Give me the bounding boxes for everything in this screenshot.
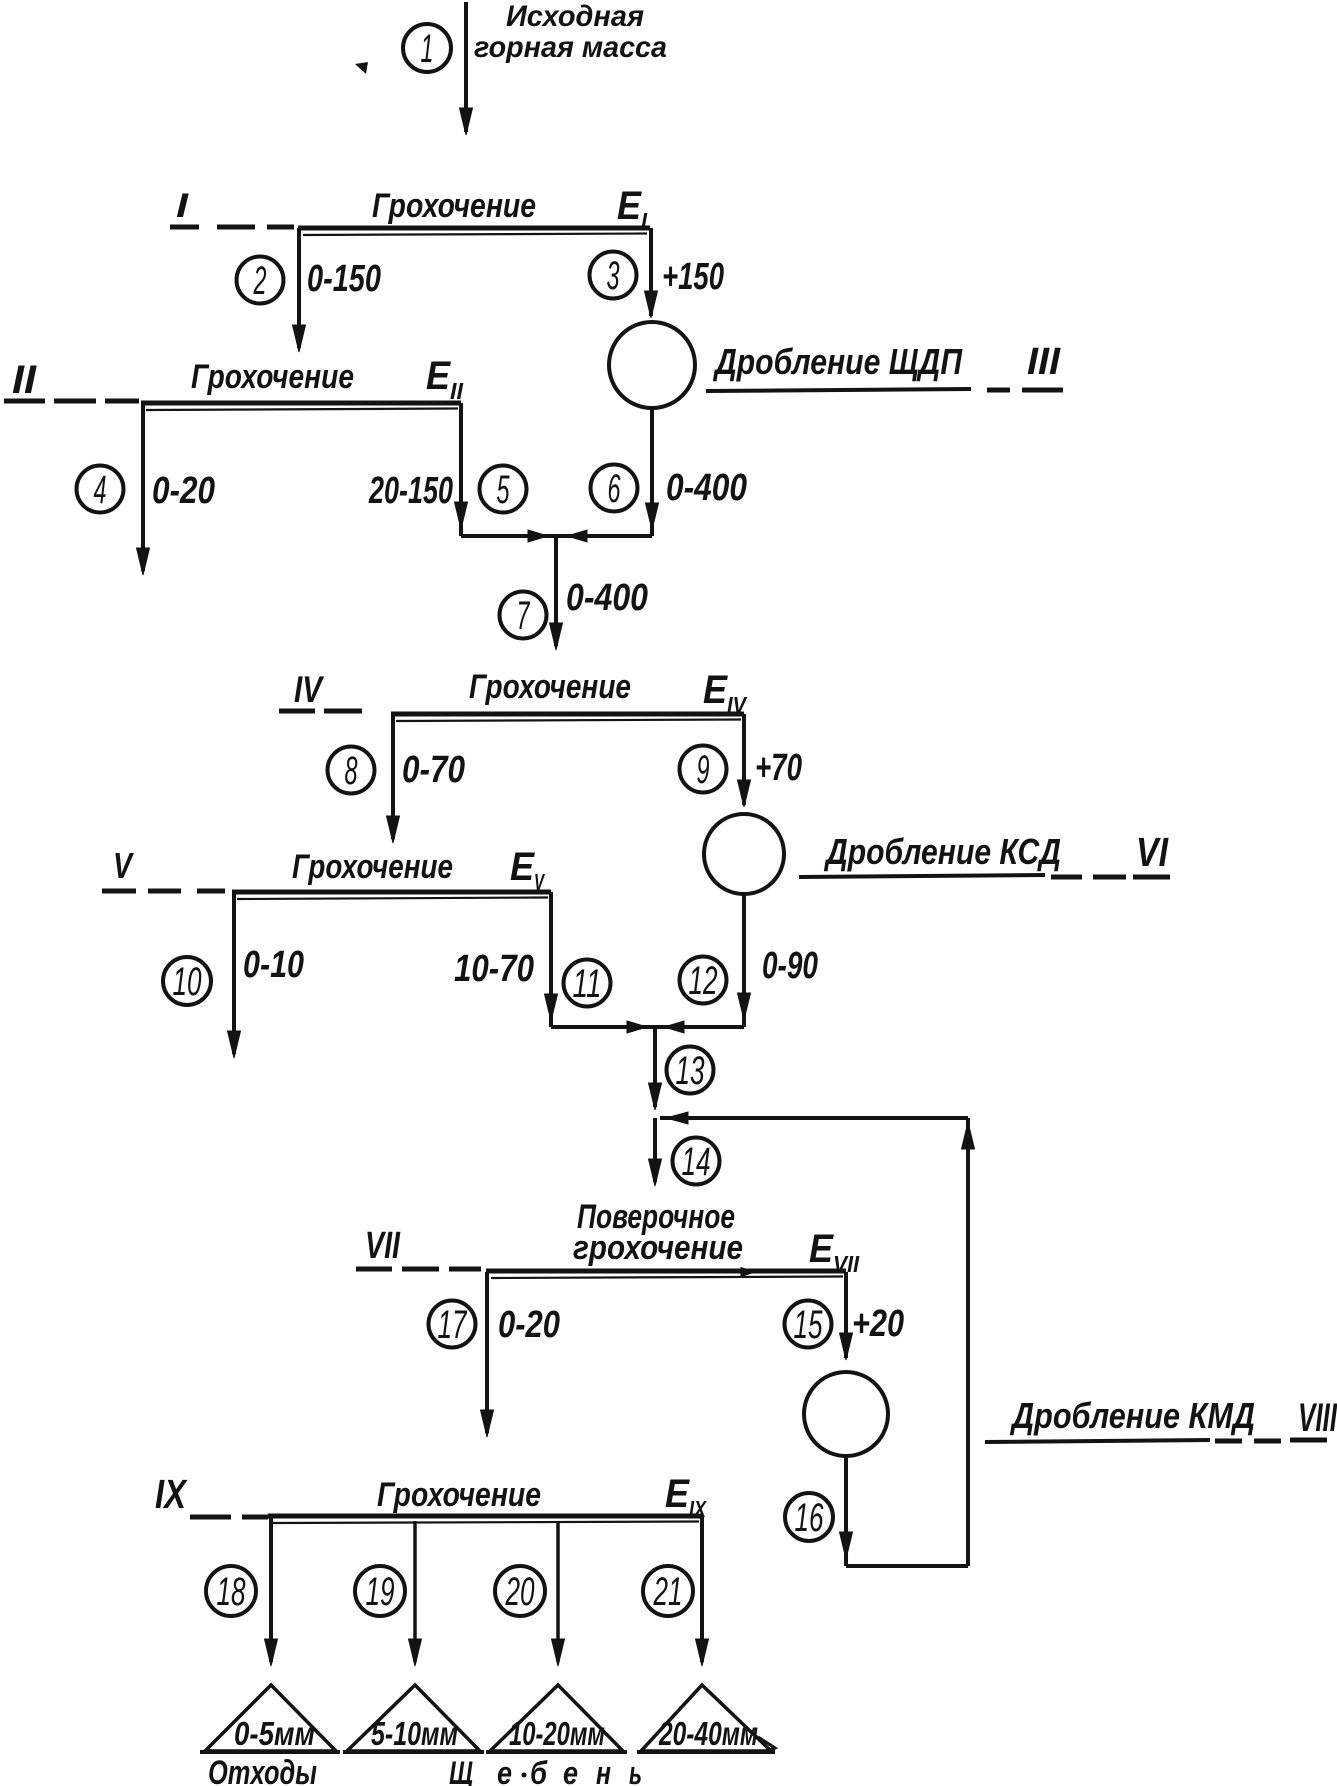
roman numeral VIII <box>1290 1396 1337 1440</box>
svg-text:16: 16 <box>795 1496 824 1540</box>
svg-text:17: 17 <box>438 1303 468 1347</box>
svg-text:E: E <box>703 668 728 712</box>
wire: crusher KSD discharge <box>655 894 751 1033</box>
svg-text:2: 2 <box>253 259 267 303</box>
svg-text:Щ: Щ <box>449 1755 473 1786</box>
svg-text:IX: IX <box>155 1471 188 1517</box>
svg-text:15: 15 <box>794 1303 823 1347</box>
dashed feed line II <box>4 399 139 404</box>
wire: screen VII oversize to crusher KMD <box>840 1272 853 1360</box>
svg-text:5: 5 <box>497 468 510 512</box>
crusher KMD circle <box>804 1372 888 1456</box>
svg-text:20: 20 <box>505 1570 535 1614</box>
svg-text:1: 1 <box>421 27 434 71</box>
crusher ShchDP (jaw crusher) circle <box>609 322 695 408</box>
svg-text:E: E <box>510 845 535 889</box>
stockpile 10-20mm <box>486 1685 627 1752</box>
stockpile 20-40mm <box>637 1685 775 1752</box>
node 18 <box>206 1566 256 1616</box>
svg-text:Грохочение: Грохочение <box>372 187 536 225</box>
svg-text:б: б <box>530 1755 548 1786</box>
screen IV deck <box>391 714 744 721</box>
screen VII deck <box>486 1268 846 1279</box>
svg-text:II: II <box>450 378 464 404</box>
label crushing KSD stage VI <box>799 831 1126 877</box>
svg-text:I: I <box>641 208 648 234</box>
svg-text:0-400: 0-400 <box>566 577 648 619</box>
dashed feed line IX <box>190 1515 268 1520</box>
roman numeral III <box>1022 341 1063 390</box>
wire: screen IV oversize to crusher KSD <box>738 714 751 807</box>
svg-text:18: 18 <box>217 1570 246 1614</box>
svg-text:Исходная: Исходная <box>506 0 644 33</box>
svg-text:10-70: 10-70 <box>454 948 534 990</box>
wire: crusher discharge to junction <box>556 530 652 542</box>
svg-text:4: 4 <box>94 468 107 512</box>
stockpile 0-5mm <box>200 1685 340 1752</box>
wire: screen IV undersize drop <box>387 714 400 843</box>
svg-text:0-90: 0-90 <box>762 945 818 987</box>
svg-text:Грохочение: Грохочение <box>292 848 453 886</box>
svg-text:Дробление КСД: Дробление КСД <box>823 831 1061 872</box>
roman numeral VI <box>1133 829 1170 877</box>
feed label <box>474 0 667 64</box>
svg-text:грохочение: грохочение <box>573 1229 743 1267</box>
crusher KSD circle <box>704 814 784 894</box>
stray ink blob <box>355 62 368 74</box>
wire: combined stream 13 down <box>649 1027 662 1110</box>
label crushed stone (spread letters) <box>449 1755 642 1786</box>
wire: stream 14 down to check screening <box>649 1118 662 1186</box>
svg-text:E: E <box>665 1472 690 1516</box>
svg-text:E: E <box>617 184 642 228</box>
node 8 <box>328 747 375 794</box>
node 20 <box>495 1566 545 1616</box>
svg-text:5-10мм: 5-10мм <box>371 1715 458 1752</box>
svg-text:7: 7 <box>517 594 531 638</box>
node 9 <box>680 746 727 793</box>
node 1 <box>403 24 451 72</box>
svg-text:Дробление КМД: Дробление КМД <box>1009 1395 1255 1436</box>
node 4 <box>77 466 124 513</box>
wire: screen V oversize to junction <box>545 892 656 1033</box>
wire: screen V undersize waste drop <box>228 892 241 1058</box>
svg-text:0-70: 0-70 <box>402 749 465 791</box>
wire: product drop 20 <box>552 1521 565 1666</box>
wire: screen VII undersize drop <box>481 1272 494 1437</box>
node 11 <box>564 960 611 1007</box>
svg-text:6: 6 <box>608 467 621 511</box>
node 13 <box>667 1047 714 1094</box>
svg-text:19: 19 <box>366 1570 395 1614</box>
svg-text:3: 3 <box>607 254 620 298</box>
svg-text:IV: IV <box>294 669 325 710</box>
svg-text:VIII: VIII <box>1298 1396 1337 1440</box>
svg-text:I: I <box>176 187 190 225</box>
node 19 <box>355 1566 405 1616</box>
dashed feed line V <box>102 889 225 894</box>
efficiency E_I <box>617 184 648 234</box>
svg-text:E: E <box>426 354 451 398</box>
node 14 <box>673 1138 720 1185</box>
node 3 <box>590 252 637 299</box>
node 16 <box>785 1493 833 1541</box>
screen V deck <box>232 892 551 899</box>
wire: screen I oversize to crusher <box>645 228 658 318</box>
node 2 <box>237 257 284 304</box>
node 10 <box>163 957 211 1005</box>
node 12 <box>680 957 727 1004</box>
svg-text:+150: +150 <box>662 256 724 298</box>
node 6 <box>591 465 638 512</box>
svg-text:IX: IX <box>689 1496 707 1522</box>
node 17 <box>429 1301 476 1348</box>
svg-text:е: е <box>497 1755 512 1786</box>
svg-text:20-40мм: 20-40мм <box>658 1715 758 1752</box>
svg-text:8: 8 <box>345 749 358 793</box>
svg-text:20-150: 20-150 <box>368 470 453 512</box>
svg-text:14: 14 <box>682 1140 711 1184</box>
svg-text:0-150: 0-150 <box>307 258 381 300</box>
svg-text:+20: +20 <box>852 1303 904 1345</box>
efficiency E_IX <box>665 1472 707 1522</box>
efficiency E_IV <box>703 668 747 718</box>
svg-text:10-20мм: 10-20мм <box>509 1715 605 1752</box>
svg-text:9: 9 <box>697 748 710 792</box>
svg-text:0-400: 0-400 <box>666 467 747 509</box>
screen I deck <box>298 228 650 235</box>
wire: product drop 19 <box>409 1521 422 1666</box>
screen IX deck <box>268 1516 702 1523</box>
label crushing KMD stage VIII <box>985 1395 1281 1442</box>
svg-text:0-5мм: 0-5мм <box>234 1715 315 1752</box>
svg-text:Грохочение: Грохочение <box>191 358 354 396</box>
wire: crusher KMD recycle loop <box>660 1112 975 1566</box>
svg-text:0-20: 0-20 <box>498 1304 560 1346</box>
wire: screen I undersize drop <box>293 228 306 352</box>
wire: combined stream 7 down <box>550 536 563 650</box>
svg-text:Дробление ЩДП: Дробление ЩДП <box>712 341 962 382</box>
svg-text:II: II <box>12 358 37 402</box>
svg-text:V: V <box>534 869 545 895</box>
wire: crusher ShchDP discharge <box>646 408 659 536</box>
label crushing ShchDP stage III <box>706 341 1010 391</box>
dashed feed line VII <box>356 1267 481 1272</box>
screen II deck <box>141 403 461 410</box>
svg-text:13: 13 <box>676 1049 705 1093</box>
label check screening <box>573 1198 743 1267</box>
node 21 <box>643 1566 693 1616</box>
svg-text:н: н <box>596 1755 611 1786</box>
wire: screen II oversize to junction <box>455 403 557 542</box>
svg-text:VII: VII <box>365 1225 401 1267</box>
dashed feed line IV <box>279 709 362 714</box>
node 7 <box>500 592 547 639</box>
dashed feed line I <box>170 225 294 230</box>
wire: product drop 18 <box>265 1516 278 1666</box>
svg-text:Отходы: Отходы <box>208 1754 317 1786</box>
svg-text:0-10: 0-10 <box>243 944 304 986</box>
wire: product drop 21 <box>696 1516 709 1666</box>
wire: screen II undersize waste drop <box>137 403 150 575</box>
svg-text:ь: ь <box>629 1755 642 1786</box>
efficiency E_VII <box>809 1227 860 1277</box>
svg-text:Грохочение: Грохочение <box>377 1476 541 1514</box>
svg-text:VI: VI <box>1136 829 1169 875</box>
efficiency E_II <box>426 354 464 404</box>
feed stream arrow (stream 1) <box>460 2 473 135</box>
node 5 <box>480 466 527 513</box>
svg-text:III: III <box>1027 341 1061 383</box>
svg-text:+70: +70 <box>755 747 802 789</box>
svg-text:0-20: 0-20 <box>152 470 215 512</box>
svg-text:горная масса: горная масса <box>474 31 667 64</box>
svg-text:V: V <box>113 845 134 886</box>
svg-text:11: 11 <box>573 962 602 1006</box>
stockpile 5-10mm <box>343 1685 484 1752</box>
svg-text:10: 10 <box>173 960 202 1004</box>
svg-text:E: E <box>809 1227 834 1271</box>
efficiency E_V <box>510 845 545 895</box>
svg-text:Грохочение: Грохочение <box>469 668 631 706</box>
svg-text:21: 21 <box>653 1570 683 1614</box>
node 15 <box>785 1301 832 1348</box>
svg-text:е: е <box>563 1755 578 1786</box>
svg-text:12: 12 <box>689 959 718 1003</box>
